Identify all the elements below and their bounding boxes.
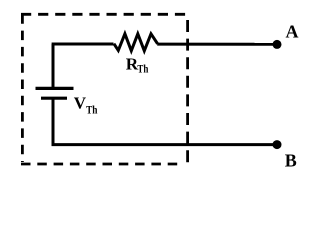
wire: top horizontal right segment to terminal A <box>157 43 275 46</box>
svg-text:B: B <box>285 151 297 171</box>
node A terminal dot <box>273 40 282 49</box>
wire: top-left corner vertical (battery top lead) <box>52 44 55 88</box>
battery V_Th top plate (long) <box>36 87 74 90</box>
wire: top horizontal left segment to resistor <box>52 43 114 46</box>
resistor R_Th zigzag <box>114 34 158 51</box>
node B terminal dot <box>273 140 282 149</box>
dashed Thevenin box: left edge <box>21 14 24 162</box>
svg-text:A: A <box>286 22 299 42</box>
battery V_Th bottom plate (short) <box>41 97 67 100</box>
dashed Thevenin box: bottom edge <box>21 163 184 166</box>
dashed Thevenin box: right edge <box>186 20 189 164</box>
wire: bottom horizontal rail to terminal B <box>52 143 275 146</box>
wire: battery bottom lead down to bottom rail <box>52 98 55 146</box>
dashed Thevenin box: top edge <box>21 13 185 16</box>
